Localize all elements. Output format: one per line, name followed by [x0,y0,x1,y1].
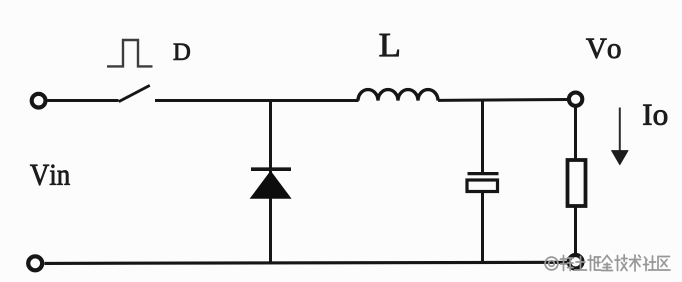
wire bottom return [45,262,568,263]
watermark @ [545,257,558,270]
watermark 术 [630,255,641,271]
watermark 社 [644,256,657,271]
label L [380,34,399,56]
label Vin [30,165,70,186]
switch S (blade) [119,85,150,101]
watermark 土 [575,257,587,271]
capacitor C top plate [468,172,499,175]
label Vo [586,39,620,59]
wire capacitor branch lower [481,192,484,264]
watermark @稀土掘金技术社区 (drawn glyphs) [545,255,670,271]
terminal top-right (Vo node) [569,93,582,106]
wire diode branch (vertical) [269,101,272,264]
wire capacitor branch upper [481,101,484,173]
label D [174,44,190,60]
capacitor C bottom plate (boxed) [467,180,498,192]
diode D1 cathode bar [251,167,291,171]
diode D1 triangle (anode, pointing up) [250,171,292,199]
inductor L (4 humps) [358,90,438,101]
watermark 区 [658,257,670,271]
pulse waveform symbol [107,40,153,66]
watermark 金 [602,256,613,271]
wire inductor to output node [438,98,569,102]
wire switch to inductor [155,99,359,102]
wire load branch upper [574,107,577,161]
watermark 稀 [561,256,574,271]
watermark 掘 [588,256,601,271]
terminal bottom-right [569,255,583,269]
Io arrow [619,108,621,153]
label Io [643,105,667,125]
resistor R load [568,160,586,206]
watermark 技 [615,255,627,271]
wire load branch lower [574,206,577,254]
terminal top-left [32,94,46,108]
wire input to switch [48,99,119,102]
terminal bottom-left [28,256,42,270]
